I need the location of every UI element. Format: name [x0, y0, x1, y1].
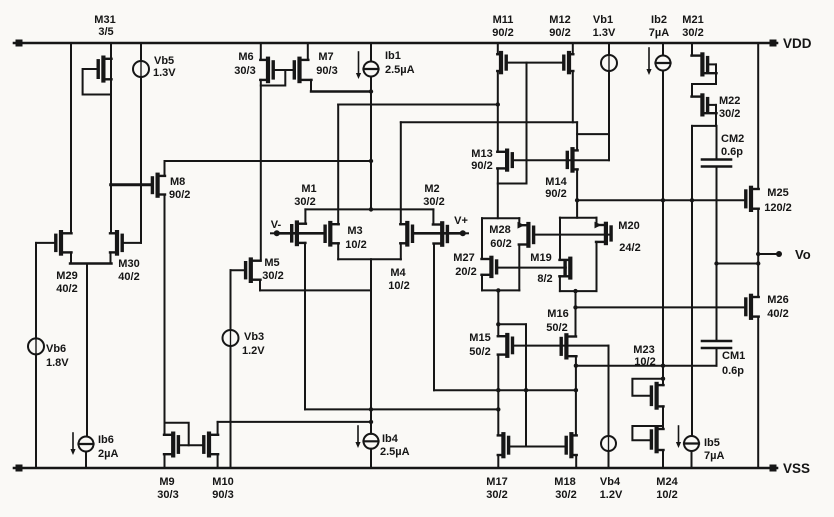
wire M20 drain riser [596, 218, 598, 225]
label Vplus [454, 215, 468, 227]
voltage source Vb1 [601, 55, 617, 71]
arrow M20 drain [595, 222, 602, 229]
wire M13 source chain [497, 168, 499, 218]
transistor M4 [400, 223, 412, 245]
transistor M9 [164, 434, 178, 456]
label Ib2 [649, 14, 669, 39]
wire M11 M12 gate [506, 62, 564, 64]
label M19 [530, 252, 552, 285]
arrow Ib6 [70, 433, 75, 455]
svg-text:30/3: 30/3 [157, 489, 178, 501]
svg-text:7µA: 7µA [704, 450, 724, 462]
svg-text:M17: M17 [486, 476, 507, 488]
transistor M30 [110, 232, 122, 254]
wire M23 source [662, 406, 664, 429]
VDD rail [14, 40, 777, 47]
capacitor CM1 [702, 341, 731, 348]
wire Vb1 drop [608, 71, 610, 160]
svg-text:M22: M22 [719, 95, 740, 107]
transistor M21 [692, 54, 717, 74]
svg-text:CM1: CM1 [722, 350, 745, 362]
wire VDD drop to M25 [757, 43, 759, 189]
wire M21 drain [691, 43, 693, 56]
svg-text:Vb6: Vb6 [46, 343, 66, 355]
svg-text:40/2: 40/2 [56, 283, 77, 295]
wire M28 drain riser [518, 218, 520, 225]
wire CM1 line L366 [576, 364, 717, 368]
wire M12 source [572, 71, 574, 122]
wire Ib2 chain [661, 71, 665, 386]
wire M28 source drop [518, 245, 520, 291]
wire Ib5 bottom [691, 451, 693, 468]
wire class-AB link L409 [305, 408, 498, 410]
transistor M12 [564, 53, 574, 72]
wire L291 node [560, 289, 597, 293]
wire M11 drain [497, 43, 499, 54]
svg-text:M27: M27 [453, 252, 474, 264]
wire NMOS tail chain [369, 259, 373, 434]
wire M10 drain line L422 [218, 421, 371, 423]
svg-text:10/2: 10/2 [388, 280, 409, 292]
label M5 [262, 257, 283, 282]
current source Ib2 [656, 56, 671, 71]
wire Vplus to gates [414, 232, 463, 235]
svg-text:3/5: 3/5 [98, 26, 113, 38]
label Vo [795, 247, 811, 262]
svg-text:90/2: 90/2 [492, 27, 513, 39]
label M30 [118, 258, 139, 283]
svg-text:60/2: 60/2 [490, 238, 511, 250]
wire cap to output link [717, 263, 759, 265]
transistor M26 [746, 296, 759, 318]
label CM1 [722, 350, 745, 377]
transistor M18 [566, 434, 577, 456]
node Vminus [271, 230, 280, 236]
label M29 [56, 270, 77, 295]
wire Vb5 to M30 gate [140, 77, 142, 243]
transistor M19 [559, 259, 570, 278]
wire M17 source [497, 455, 499, 468]
wire Ib1 chain down [369, 77, 373, 212]
wire M20 source drop [596, 242, 598, 291]
capacitor CM2 [702, 160, 731, 167]
wire M31 drain to VDD [110, 43, 112, 59]
wire M16 source drop [574, 356, 578, 435]
transistor M23 [651, 384, 663, 408]
svg-text:2.5µA: 2.5µA [380, 446, 410, 458]
transistor M6 [260, 59, 273, 81]
wire M14 drain riser [576, 122, 578, 150]
label M25 [764, 187, 792, 214]
label CM2 [721, 133, 744, 158]
label M23 [633, 344, 655, 368]
svg-text:1.2V: 1.2V [242, 345, 265, 357]
label M3 [345, 225, 366, 251]
wire Vb5 top [140, 43, 142, 61]
transistor M20 [596, 224, 611, 243]
wire M21 gate link [708, 63, 716, 65]
wire M10 source [217, 454, 219, 468]
svg-text:10/2: 10/2 [634, 356, 655, 368]
svg-text:2.5µA: 2.5µA [385, 64, 415, 76]
wire tail to Ib6 [86, 264, 88, 437]
label Vb4 [600, 476, 623, 501]
label M20 [618, 220, 640, 254]
wire Ib4 bottom [370, 449, 372, 468]
wire Vb3 top [230, 270, 232, 330]
wire Vb6 top [35, 243, 37, 339]
wire class AB drive L308 [573, 305, 746, 309]
wire Ib6 bottom [85, 452, 87, 469]
transistor M31 [98, 58, 111, 81]
arrow Ib5 [676, 426, 681, 448]
wire M3 drain riser [337, 105, 339, 225]
transistor M11 [497, 53, 506, 72]
svg-text:0.6p: 0.6p [722, 365, 744, 377]
svg-text:M29: M29 [56, 270, 77, 282]
wire M18 source [575, 455, 577, 468]
svg-text:M4: M4 [390, 267, 406, 279]
wire M2 cascode line L390 [434, 388, 576, 392]
svg-text:M15: M15 [469, 332, 490, 344]
label M6 [234, 51, 255, 77]
wire M12 drain [572, 43, 574, 54]
voltage source Vb3 [223, 330, 239, 346]
wire Ib1 top [370, 43, 372, 62]
voltage source Vb6 [28, 338, 44, 354]
svg-text:M25: M25 [767, 187, 788, 199]
svg-text:M20: M20 [618, 220, 639, 232]
svg-text:30/2: 30/2 [555, 489, 576, 501]
wire Vb4 riser [608, 346, 610, 436]
wire M16 drain riser [575, 291, 577, 336]
svg-text:M24: M24 [656, 476, 678, 488]
wire M13 gate line [513, 159, 609, 161]
svg-text:7µA: 7µA [649, 27, 669, 39]
wire M6 M7 gate [273, 69, 294, 71]
wire M14 source drop [575, 169, 579, 217]
label M1 [294, 183, 316, 208]
wire M27 drain riser [481, 218, 483, 259]
label M24 [656, 476, 678, 501]
svg-text:30/2: 30/2 [294, 196, 315, 208]
wire M2 drain drop [433, 244, 435, 391]
wire M29 M30 source bus [70, 252, 112, 263]
wire M19 drain riser [559, 218, 561, 260]
svg-text:Ib4: Ib4 [382, 433, 399, 445]
wire L324 branch [498, 323, 526, 325]
svg-text:1.2V: 1.2V [600, 489, 623, 501]
label M28 [489, 224, 511, 250]
svg-text:90/2: 90/2 [169, 189, 190, 201]
wire M3 source [337, 243, 339, 259]
wire M8 source drop [164, 195, 166, 435]
svg-text:VDD: VDD [783, 36, 812, 51]
transistor M2 [433, 223, 448, 244]
transistor M5 [246, 260, 261, 281]
svg-text:24/2: 24/2 [619, 242, 640, 254]
VSS rail [14, 465, 777, 472]
label Vminus [271, 219, 282, 231]
wire M4 source [400, 243, 402, 259]
transistor M10 [204, 434, 218, 456]
label M2 [423, 183, 444, 208]
wire M24 gate loop [632, 426, 663, 440]
wire M22 gate link [708, 104, 716, 106]
wire M15 source chain [496, 355, 500, 435]
wire M23 gate loop [632, 379, 663, 396]
wire M31 gate loop [83, 69, 111, 95]
transistor M15 [498, 335, 513, 356]
label M17 [486, 476, 507, 501]
wire P tail L209 [305, 208, 433, 210]
wire Vb3 bottom [230, 346, 232, 468]
wire M30 gate [122, 242, 141, 244]
svg-text:M31: M31 [94, 14, 115, 26]
node Vo [758, 251, 782, 257]
svg-text:Vb5: Vb5 [154, 55, 174, 67]
svg-text:120/2: 120/2 [764, 202, 792, 214]
wire M6 source chain [260, 80, 262, 261]
svg-text:40/2: 40/2 [118, 271, 139, 283]
label M13 [471, 148, 492, 172]
wire M19 source drop [559, 276, 561, 291]
svg-text:M6: M6 [238, 51, 253, 63]
transistor M14 [567, 149, 577, 170]
transistor M13 [497, 151, 512, 170]
wire M14 diode link [577, 133, 609, 135]
wire M2 source riser [432, 209, 434, 224]
svg-text:M8: M8 [170, 176, 185, 188]
label M26 [767, 294, 788, 320]
svg-text:Ib2: Ib2 [651, 14, 667, 26]
label M18 [554, 476, 576, 501]
wire gate drop M11 M12 [526, 63, 528, 184]
wire Vb1 top [608, 43, 610, 55]
wire M9 source [164, 454, 166, 468]
wire M5 source [260, 280, 371, 291]
wire bias line L201 [577, 198, 746, 202]
transistor M3 [325, 223, 339, 245]
wire M27 source drop [481, 275, 483, 291]
svg-text:2µA: 2µA [98, 448, 118, 460]
wire M1 drain drop [304, 243, 306, 410]
wire M20 drain line L217 [560, 217, 597, 219]
wire M17 M18 gate [509, 446, 567, 448]
wire cap column mid [714, 167, 718, 342]
svg-text:M19: M19 [530, 252, 551, 264]
svg-text:20/2: 20/2 [455, 266, 476, 278]
svg-text:M26: M26 [767, 294, 788, 306]
svg-text:M11: M11 [493, 14, 514, 26]
label M22 [719, 95, 740, 120]
wire M6 gate diode link [261, 70, 286, 86]
wire Ib5 chain up [691, 126, 693, 436]
wire Vminus to gates [277, 232, 325, 235]
wire CM2 top [716, 126, 718, 160]
label Ib1 [385, 50, 415, 76]
svg-text:VSS: VSS [783, 461, 810, 476]
svg-text:90/2: 90/2 [549, 27, 570, 39]
svg-text:1.3V: 1.3V [593, 27, 616, 39]
label M21 [682, 14, 703, 39]
current source Ib4 [364, 434, 379, 449]
wire M4 drain line L122 [401, 121, 577, 123]
label M16 [546, 308, 568, 334]
transistor M29 [56, 232, 72, 254]
wire M1 source riser [304, 209, 306, 223]
wire M31 source chain [110, 59, 112, 234]
svg-text:0.6p: 0.6p [721, 146, 743, 158]
transistor M7 [294, 59, 311, 81]
svg-text:10/2: 10/2 [345, 239, 366, 251]
wire M26 source [757, 317, 759, 468]
label M9 [157, 476, 178, 501]
current source Ib6 [79, 437, 94, 452]
svg-text:M16: M16 [547, 308, 568, 320]
label Vb5 [153, 55, 176, 79]
wire Ib2 top [662, 43, 664, 56]
VSS label [783, 461, 810, 476]
wire M22 right riser [715, 105, 717, 126]
label M7 [316, 51, 337, 77]
label M15 [469, 332, 490, 358]
label M31 [94, 14, 115, 38]
transistor M28 [519, 224, 534, 246]
svg-text:CM2: CM2 [721, 133, 744, 145]
wire M15 M16 gate line [513, 345, 609, 347]
label M11 [492, 14, 513, 39]
label M27 [453, 252, 476, 278]
wire Vb4 bottom [608, 451, 610, 468]
svg-text:Ib1: Ib1 [385, 50, 401, 62]
wire M27 gate line [497, 267, 566, 269]
svg-text:30/2: 30/2 [719, 108, 740, 120]
svg-text:M30: M30 [118, 258, 139, 270]
svg-text:Vb4: Vb4 [600, 476, 621, 488]
wire M9 M10 gate [179, 444, 204, 446]
wire M28 drain line L218 [482, 217, 519, 219]
transistor M8 [152, 175, 165, 196]
svg-text:30/2: 30/2 [682, 27, 703, 39]
node Vplus [460, 230, 468, 236]
svg-text:V-: V- [271, 219, 282, 231]
voltage source Vb5 [133, 61, 149, 77]
wire L183 link [498, 183, 527, 185]
svg-text:50/2: 50/2 [469, 346, 490, 358]
transistor M24 [651, 428, 663, 451]
svg-text:M23: M23 [633, 344, 654, 356]
wire M6 drain [260, 43, 262, 60]
current source Ib5 [684, 436, 699, 451]
svg-text:Ib6: Ib6 [98, 434, 114, 446]
svg-text:M7: M7 [318, 51, 333, 63]
label M8 [169, 176, 190, 201]
wire L290 node [482, 288, 519, 292]
wire gate drop to M17 M18 [525, 324, 527, 446]
wire VDD drop to M29 [70, 43, 72, 233]
wire M11 source chain [496, 71, 500, 152]
svg-text:M10: M10 [212, 476, 233, 488]
arrow Ib4 [355, 426, 360, 448]
svg-text:8/2: 8/2 [537, 273, 552, 285]
label Vb6 [46, 343, 69, 369]
svg-text:30/3: 30/3 [234, 65, 255, 77]
svg-text:V+: V+ [454, 215, 468, 227]
wire CM1 bottom [716, 348, 718, 366]
wire M4 drain riser [400, 122, 402, 224]
transistor M27 [482, 258, 497, 276]
transistor M17 [498, 434, 509, 456]
label Ib4 [380, 433, 410, 458]
wire tail N line L259 [338, 258, 401, 260]
svg-text:30/2: 30/2 [486, 489, 507, 501]
svg-text:90/2: 90/2 [471, 160, 492, 172]
svg-text:1.3V: 1.3V [153, 67, 176, 79]
wire M8 drain line [165, 160, 372, 162]
wire M21 source bus [692, 84, 716, 97]
arrow Ib1 [356, 52, 361, 79]
label Ib6 [98, 434, 118, 460]
label Vb1 [593, 14, 616, 39]
svg-text:M1: M1 [301, 183, 316, 195]
svg-text:M5: M5 [264, 257, 279, 269]
label Vb3 [242, 331, 265, 357]
transistor M16 [561, 335, 576, 357]
wire M9 diode link [165, 423, 189, 446]
wire output chain [756, 209, 760, 297]
wire M7 drain [307, 43, 309, 60]
svg-text:40/2: 40/2 [767, 308, 788, 320]
svg-text:1.8V: 1.8V [46, 357, 69, 369]
svg-text:M9: M9 [159, 476, 174, 488]
svg-text:10/2: 10/2 [656, 489, 677, 501]
svg-text:50/2: 50/2 [546, 322, 567, 334]
svg-text:M28: M28 [489, 224, 510, 236]
svg-text:M2: M2 [424, 183, 439, 195]
transistor M22 [692, 95, 717, 114]
wire M8 drain riser [164, 161, 166, 176]
svg-text:30/2: 30/2 [423, 196, 444, 208]
transistor M1 [292, 223, 306, 245]
wire M3 M4 drain line L104 [338, 104, 498, 106]
wire M8 gate [111, 183, 153, 186]
svg-text:M3: M3 [347, 225, 362, 237]
wire M10 drain riser [217, 422, 219, 435]
VDD label [783, 36, 812, 51]
svg-text:M18: M18 [554, 476, 575, 488]
svg-text:M12: M12 [549, 14, 570, 26]
wire M29 gate [36, 242, 56, 244]
wire M28 gate line [534, 234, 612, 236]
wire Vb6 bottom [35, 354, 37, 468]
svg-text:M14: M14 [545, 176, 567, 188]
voltage source Vb4 [601, 436, 616, 451]
svg-text:Ib5: Ib5 [704, 437, 720, 449]
label M10 [212, 476, 233, 501]
wire M7 source [311, 80, 371, 92]
label M4 [388, 267, 409, 292]
transistor M25 [746, 188, 759, 210]
arrow M28 drain [518, 222, 525, 229]
current source Ib1 [364, 62, 379, 77]
wire M21 right riser [715, 64, 717, 84]
svg-text:Vb3: Vb3 [244, 331, 264, 343]
label Ib5 [704, 437, 724, 462]
svg-text:30/2: 30/2 [262, 270, 283, 282]
label M14 [545, 176, 567, 200]
label M12 [549, 14, 570, 39]
